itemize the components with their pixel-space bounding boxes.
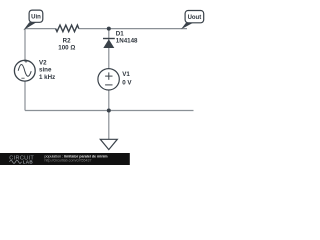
node flag Uin <box>23 10 43 30</box>
voltage source V2 (sine source symbol) <box>14 60 35 81</box>
svg-text:1 kHz: 1 kHz <box>39 74 55 81</box>
svg-text:http://circuitlab.com/c/rt5543: http://circuitlab.com/c/rt55437 <box>45 159 92 163</box>
wire ground stem <box>108 111 110 140</box>
svg-text:Uout: Uout <box>188 15 202 21</box>
CircuitLab logo sine squiggle <box>10 160 22 163</box>
svg-text:V2: V2 <box>39 59 47 66</box>
junction dot bottom (ground to bottom rail) <box>107 109 111 113</box>
wire left vertical upper (node Uin to V2 plus terminal) <box>24 29 26 61</box>
ground <box>100 139 117 149</box>
svg-text:100 Ω: 100 Ω <box>58 44 75 51</box>
wire bottom horizontal rail <box>25 110 194 112</box>
svg-text:V1: V1 <box>122 71 130 78</box>
diode D1 (cathode bar up, anode below) <box>103 39 115 49</box>
svg-text:Uin: Uin <box>31 14 41 20</box>
voltage source V1 (DC source symbol, plus top minus bottom) <box>98 69 119 90</box>
junction dot top (D1 cathode to top rail) <box>107 27 111 31</box>
svg-text:0 V: 0 V <box>122 80 132 87</box>
resistor R2 <box>56 25 79 32</box>
svg-text:LAB: LAB <box>23 160 34 165</box>
wire left vertical lower (V2 minus terminal to bottom rail) <box>24 81 26 110</box>
svg-text:sine: sine <box>39 67 52 74</box>
wire top horizontal left of resistor (node Uin to R2) <box>25 28 56 30</box>
node flag Uout <box>181 11 204 30</box>
svg-text:1N4148: 1N4148 <box>116 38 138 45</box>
wire diode vertical (top rail through D1 to V1 plus terminal) <box>108 29 110 69</box>
watermark bar (CircuitLab banner) <box>0 153 130 165</box>
wire V1 minus terminal to bottom rail <box>108 90 110 111</box>
svg-text:R2: R2 <box>63 37 71 44</box>
wire top horizontal right of resistor (R2 to node Uout) <box>79 28 187 30</box>
